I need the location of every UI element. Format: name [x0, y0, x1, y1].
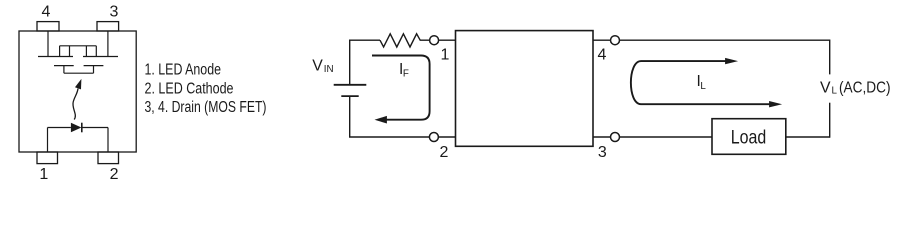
light emission arrow	[73, 78, 84, 120]
svg-text:L: L	[700, 81, 706, 92]
IL current arrow	[631, 58, 782, 108]
pin 1 lead	[37, 152, 58, 164]
battery VIN	[334, 40, 367, 137]
svg-text:(AC,DC): (AC,DC)	[839, 79, 891, 96]
svg-text:4: 4	[41, 3, 50, 20]
svg-text:3: 3	[598, 144, 607, 161]
wire input top	[349, 39, 380, 41]
svg-text:1. LED Anode: 1. LED Anode	[145, 62, 222, 79]
wire box to pin3	[593, 136, 611, 138]
wire right vertical lower	[829, 103, 831, 138]
svg-text:Load: Load	[731, 127, 767, 148]
wire pin4 to right corner	[620, 40, 830, 74]
LED D1	[48, 123, 109, 152]
IF current arrow	[372, 56, 430, 124]
svg-text:L: L	[832, 85, 838, 96]
pin 2 lead	[98, 152, 119, 164]
terminal circle pin 2	[429, 133, 438, 142]
svg-text:1: 1	[441, 46, 450, 63]
optocoupler package outline	[19, 31, 136, 152]
terminal circle pin 3	[611, 133, 620, 142]
VIN label	[312, 58, 333, 75]
terminal circle pin 4	[611, 36, 620, 45]
wire load to right corner	[786, 136, 830, 138]
MOS FET Q1 dual common-source	[38, 46, 118, 73]
pin 3 lead	[97, 22, 119, 31]
svg-text:1: 1	[39, 166, 48, 183]
svg-text:V: V	[820, 79, 831, 96]
wire drain pin3	[107, 31, 109, 57]
svg-text:4: 4	[597, 47, 606, 64]
wire pin3 to load	[620, 136, 713, 138]
svg-text:IN: IN	[324, 64, 334, 75]
VL label	[820, 79, 891, 96]
svg-text:V: V	[312, 58, 323, 75]
svg-text:F: F	[403, 69, 409, 80]
IF label	[399, 61, 409, 80]
svg-text:3: 3	[109, 3, 118, 20]
svg-text:3, 4. Drain (MOS FET): 3, 4. Drain (MOS FET)	[145, 99, 267, 116]
IL label	[697, 73, 707, 92]
pin 4 lead	[37, 22, 59, 31]
wire pin2 to box	[438, 136, 455, 138]
terminal circle pin 1	[430, 36, 439, 45]
wire drain pin4	[47, 31, 49, 57]
wire box to pin4	[593, 39, 611, 41]
wire input bottom	[349, 136, 429, 138]
svg-text:2. LED Cathode: 2. LED Cathode	[145, 81, 234, 98]
load box	[712, 119, 786, 155]
photorelay box	[456, 31, 594, 147]
resistor R	[380, 34, 430, 47]
wire pin1 to box	[439, 39, 456, 41]
svg-text:2: 2	[440, 144, 449, 161]
svg-text:2: 2	[110, 166, 119, 183]
